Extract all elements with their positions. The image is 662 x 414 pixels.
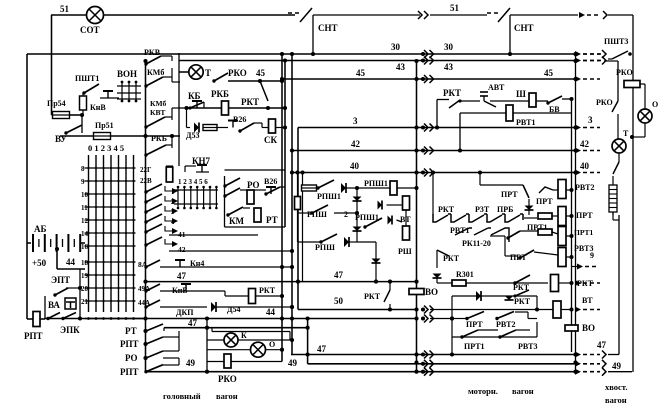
svg-text:РПШ1: РПШ1 [364,179,388,188]
svg-text:РК11-20: РК11-20 [462,239,491,248]
svg-text:вагон: вагон [512,386,534,396]
svg-text:ВО: ВО [425,287,438,297]
svg-text:ПРТ1: ПРТ1 [464,342,485,351]
bus x285 (KM box right edge) [284,61,286,228]
RPSh coil [295,197,301,210]
wire 50 motor [430,309,554,311]
RKT contact on diode row [515,290,529,296]
PSh3 hatched resistor [609,185,617,212]
coil at x554 [551,275,559,292]
svg-text:9: 9 [81,178,85,186]
svg-text:РШ: РШ [398,247,412,256]
wire 44 into bridge [430,318,452,320]
lamp COT [87,7,104,24]
svg-text:3: 3 [588,115,593,125]
svg-text:АВТ: АВТ [488,83,505,92]
diode down x529 [528,199,530,215]
vertical diode chain x357 [356,188,358,242]
wire 47 short (head) [164,327,308,329]
KM contact [228,207,243,215]
vertical x207 [206,319,208,372]
bracket above lamp K [211,328,213,332]
diode row y296 [452,295,537,297]
svg-text:РКО: РКО [228,68,247,78]
RKT coil (head) [225,295,248,297]
svg-text:вагон: вагон [605,395,627,405]
svg-text:РВТ2: РВТ2 [496,320,515,329]
RPT coil [27,318,33,320]
svg-text:47: 47 [334,270,344,280]
svg-text:16: 16 [81,243,89,251]
svg-text:Т: Т [623,129,629,138]
switch SNT1 [288,12,300,14]
svg-text:АБ: АБ [34,224,46,234]
box around RO KM RT [224,176,226,227]
svg-text:вагон: вагон [216,391,238,401]
svg-text:КБ: КБ [188,91,201,101]
EPK contacts [48,313,60,319]
svg-text:РВТ1: РВТ1 [516,118,535,127]
diode D54 [211,302,216,312]
svg-text:18: 18 [81,259,89,267]
RVT1 coil [460,112,572,114]
RKT contact [449,100,460,108]
BV contact [548,96,562,103]
row3: RPSh contact diode [321,234,337,242]
svg-text:РКТ: РКТ [259,286,276,295]
RKO coil head [207,361,224,363]
svg-text:РКТ: РКТ [364,292,381,301]
left frame vertical [26,54,28,319]
svg-text:ВОН: ВОН [117,69,137,79]
RVT2 coil [558,180,566,199]
SNT1 drop to wire 30 [312,15,314,54]
svg-text:РКБ: РКБ [211,89,229,99]
row 42 wire [169,250,292,252]
svg-text:0 1 2 3 4 5: 0 1 2 3 4 5 [88,143,124,153]
svg-text:22В: 22В [140,177,152,185]
T/RKO box left edge [178,53,180,166]
rpsh coil stem [297,173,299,243]
svg-text:РВТ2: РВТ2 [575,183,594,192]
VO resistor on bus [409,289,424,295]
svg-text:ПРТ: ПРТ [466,320,483,329]
svg-text:49: 49 [612,361,622,371]
svg-text:45: 45 [256,68,266,78]
svg-text:ПРТ: ПРТ [576,211,593,220]
svg-text:РПТ: РПТ [120,367,139,377]
SNT2 drop to wire 30 [509,15,511,54]
svg-text:ПШТ3: ПШТ3 [604,37,628,46]
lamp T [179,71,189,73]
SK coil [269,119,276,133]
rpsh box left edge [302,173,304,282]
wire 3 [298,127,576,129]
contact below lamp T [613,162,619,174]
svg-text:50: 50 [334,296,344,306]
left bus x145 [145,61,147,372]
svg-text:КМ: КМ [229,216,245,226]
entry dash 43->RKO [604,60,618,62]
AVT contact [484,101,496,107]
wire 51 top bus [51,14,295,16]
lamp O loop [640,83,645,85]
bus x292 [291,54,293,355]
svg-text:Р3Т: Р3Т [475,205,490,214]
svg-text:РТ: РТ [266,215,278,225]
KVT contact [146,117,165,127]
right bus pair [571,99,573,352]
svg-text:РПШ: РПШ [315,243,335,252]
svg-text:+50: +50 [32,258,47,268]
fuse vertical [80,96,87,110]
svg-text:РПШ1: РПШ1 [317,192,341,201]
controller grid [88,155,90,312]
svg-text:47: 47 [177,271,187,281]
row 41 wire [169,234,258,236]
svg-text:30: 30 [444,42,454,52]
svg-text:СНТ: СНТ [318,23,338,33]
RKO contact [214,73,228,81]
svg-text:ПРБ: ПРБ [497,205,513,214]
tail left vertical [618,215,620,355]
bus x307.6 [307,319,309,364]
wire VU row [60,135,94,137]
lower row: D53 fuse B26 SK [186,108,188,128]
RKV contact [146,56,161,64]
svg-text:РКТ: РКТ [438,205,455,214]
wire 49 bottom [146,371,577,373]
wire 51 right [430,14,487,16]
svg-text:О: О [652,100,658,109]
wire 51 to tail [510,14,578,16]
RKT drop from row to wire3 [436,100,438,128]
svg-text:РКТ: РКТ [241,97,259,107]
VT coil right [387,204,403,206]
svg-text:Д53: Д53 [186,131,200,140]
svg-text:42: 42 [178,245,186,254]
svg-text:ВА: ВА [48,300,60,310]
bus x416 motor left [416,61,418,372]
svg-text:Пр54: Пр54 [47,99,66,108]
wire 50 [298,309,417,311]
svg-text:10: 10 [81,191,89,199]
svg-text:РВТ1: РВТ1 [450,226,469,235]
wire 47 (head car bus) [146,281,417,283]
svg-text:хвост.: хвост. [605,382,627,392]
svg-text:44: 44 [266,307,276,317]
svg-text:9: 9 [590,251,594,260]
row RVT2 from wire40 [432,173,434,216]
svg-text:КМб: КМб [147,68,164,77]
svg-text:51: 51 [60,4,70,14]
svg-text:ЭПК: ЭПК [60,325,80,335]
svg-text:РКБ: РКБ [151,134,167,143]
RKT contact x390 [389,282,391,290]
row1: fuse contact diode RPSh1 coil [302,187,304,189]
wire 45 [282,78,576,80]
VO resistor right [565,325,578,331]
svg-text:РКТ: РКТ [514,297,531,306]
svg-text:СК: СК [264,135,277,145]
svg-text:ЭПТ: ЭПТ [51,275,70,285]
lamp O head [207,349,250,351]
svg-text:R301: R301 [456,270,474,279]
svg-text:1 2 3 4 5 6: 1 2 3 4 5 6 [178,178,208,186]
svg-text:ПРТ1: ПРТ1 [574,228,594,237]
vertical from 51 [51,15,53,115]
svg-text:ВО: ВО [582,323,595,333]
svg-text:21: 21 [81,298,89,306]
svg-text:ПРТ: ПРТ [501,190,518,199]
svg-text:КМб: КМб [150,99,167,108]
svg-text:ПРТ: ПРТ [536,197,553,206]
svg-text:45: 45 [544,68,554,78]
lamp T tail [612,139,626,153]
svg-text:РО: РО [125,353,137,363]
svg-text:РКТ: РКТ [443,254,460,263]
wire 30 [27,53,576,55]
svg-text:40: 40 [580,161,590,171]
svg-text:51: 51 [450,3,460,13]
wire 51 tail end [608,14,633,16]
wire 51 mid [313,14,420,16]
svg-text:47: 47 [317,344,327,354]
svg-text:В26: В26 [264,177,277,186]
svg-text:ПШТ1: ПШТ1 [75,74,99,83]
svg-text:РКВ: РКВ [144,48,161,57]
bus x298 (wire3 corner down to wire 50) [297,128,299,310]
svg-text:45: 45 [356,68,366,78]
wire up to EPT [44,296,46,319]
svg-text:49: 49 [186,358,196,368]
svg-text:Т: Т [205,68,211,78]
bridge contacts PRT RVT2 [450,316,454,320]
svg-text:КВТ: КВТ [150,108,165,117]
lamp K [207,339,224,341]
switch SNT2 [487,12,499,14]
svg-text:К: К [241,331,247,340]
exit 9 [572,266,578,268]
svg-text:Ш: Ш [516,89,526,99]
svg-text:Пр51: Пр51 [95,121,114,130]
svg-text:РВТ3: РВТ3 [518,342,537,351]
bridge to bottom bus [451,337,453,355]
svg-text:43: 43 [396,62,406,72]
bus x282 [281,54,283,362]
svg-text:47: 47 [597,340,607,350]
RKT contact near coil [515,275,530,283]
svg-text:20: 20 [81,285,89,293]
battery tap 44 [56,249,58,269]
svg-text:РПТ: РПТ [24,331,43,341]
PRT contact [523,185,529,198]
B26 contact [240,123,254,131]
svg-text:11: 11 [81,204,88,212]
ladder contacts rows 1-4,41,42 [146,184,162,192]
grid bottom bus 44 [85,318,146,320]
svg-text:44: 44 [66,257,76,267]
svg-text:49: 49 [288,358,298,368]
wire 40 [292,172,576,174]
tail right vertical [632,15,634,372]
svg-text:РПТ: РПТ [120,339,139,349]
svg-text:22Г: 22Г [140,166,152,174]
RKT branch contact [260,81,268,101]
svg-text:ДКП: ДКП [176,308,194,317]
wire 47 bottom bus [291,354,576,356]
svg-text:12: 12 [81,217,89,225]
wire 43 [179,60,576,62]
svg-text:РТ: РТ [125,326,137,336]
svg-text:СОТ: СОТ [80,25,100,35]
contacts inside [225,178,240,186]
svg-text:40: 40 [350,161,360,171]
svg-text:РКО: РКО [616,68,633,77]
svg-text:РО: РО [247,180,259,190]
wire mid bottom [308,363,576,365]
svg-text:головный: головный [163,391,201,401]
wire 44 long bus [45,318,417,320]
diode D53 [194,123,199,133]
svg-text:8: 8 [81,165,85,173]
VT coil on wire 50 [553,301,561,318]
svg-text:2: 2 [344,210,348,219]
PRT1 coil row [524,217,537,219]
svg-text:Д54: Д54 [227,305,241,314]
RT coil [254,208,261,222]
RPSh1 contact [365,218,382,227]
PRT coil [558,207,566,226]
svg-text:О: О [269,340,275,349]
node vertical [79,269,81,319]
svg-text:42: 42 [580,139,590,149]
svg-text:КнВ: КнВ [90,103,106,112]
svg-text:РКО: РКО [596,98,613,107]
svg-text:РКО: РКО [218,374,237,384]
svg-text:14: 14 [81,230,89,238]
svg-text:43: 43 [444,62,454,72]
svg-text:42: 42 [351,139,361,149]
bridge bottom PRT1 RVT3 [451,319,453,338]
svg-text:47: 47 [188,318,198,328]
svg-text:3: 3 [353,116,358,126]
svg-text:30: 30 [391,42,401,52]
PRT1 second row [490,235,505,237]
RSh coil [403,226,410,240]
wire 42 [292,150,576,152]
svg-text:моторн.: моторн. [468,386,498,396]
svg-text:РКТ: РКТ [443,88,461,98]
svg-text:СНТ: СНТ [514,23,534,33]
svg-text:19: 19 [81,272,89,280]
svg-text:ВТ: ВТ [582,296,593,305]
